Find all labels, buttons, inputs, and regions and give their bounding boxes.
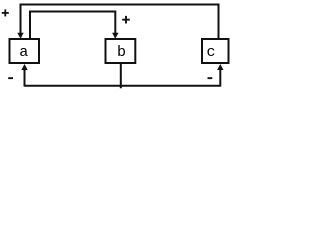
block c xyxy=(202,39,229,63)
wire: inner path from block a top to block b top xyxy=(30,12,115,40)
label - at a bottom input xyxy=(8,77,13,79)
label - at c bottom input xyxy=(208,77,213,79)
block a xyxy=(10,39,40,63)
wire: outer feedback path from block c top to block a top xyxy=(21,5,219,40)
block b xyxy=(106,39,136,63)
wire: bottom bus xyxy=(25,85,221,87)
wire: bus up into a bottom xyxy=(24,69,26,87)
wire: b bottom drop to bus xyxy=(120,63,122,88)
svg-text:b: b xyxy=(117,44,126,61)
label + at b top input xyxy=(122,16,130,24)
svg-text:c: c xyxy=(206,44,215,61)
node arrowhead into a top xyxy=(17,33,23,39)
node arrowhead into b top xyxy=(112,33,118,39)
node arrowhead into a bottom xyxy=(21,64,27,70)
label + at a top input xyxy=(2,9,9,16)
svg-text:a: a xyxy=(19,44,28,61)
wire: bus up into c bottom xyxy=(219,69,221,87)
node arrowhead into c bottom xyxy=(217,64,223,70)
